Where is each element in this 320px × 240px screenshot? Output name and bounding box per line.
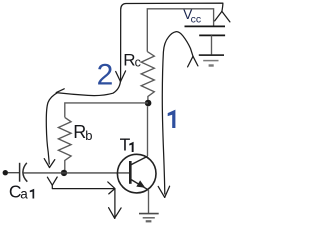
- svg-text:c: c: [135, 56, 141, 70]
- capacitor Ca1 right (curved) plate: [23, 163, 27, 182]
- capacitor C-bypass bottom plate: [199, 34, 225, 36]
- wire: top of Rb to collector node: [65, 103, 148, 118]
- wire: input terminal to coupling cap: [8, 172, 19, 174]
- wire: bypass cap to ground: [211, 35, 213, 55]
- svg-text:T: T: [120, 134, 131, 154]
- wire: coupling cap to base of T1: [23, 172, 129, 174]
- label Vcc: [183, 7, 201, 25]
- wire: Vcc top rail from collector branch to Vcc bypass cap: [147, 9, 213, 52]
- transistor T1 emitter arrow: [136, 180, 145, 187]
- ground (Vcc bypass): [199, 55, 224, 65]
- ground (emitter): [139, 214, 159, 222]
- loop arrow 1 (hand-drawn path with arrowheads): [158, 32, 198, 198]
- transistor T1 circle: [117, 154, 156, 193]
- svg-text:cc: cc: [191, 14, 202, 26]
- wire: emitter to ground: [148, 190, 150, 214]
- label Ca1: [9, 182, 34, 202]
- resistor Rb: [58, 117, 71, 170]
- base current arrow (hand-drawn: down from base node, right, down to ground): [47, 177, 121, 218]
- wire: collector rail (node to T1 collector): [147, 106, 149, 156]
- input terminal dot: [3, 170, 8, 175]
- svg-text:a: a: [20, 187, 28, 202]
- svg-text:b: b: [85, 128, 92, 143]
- transistor T1 collector lead: [131, 156, 148, 165]
- label Rb: [73, 122, 92, 143]
- svg-text:2: 2: [97, 59, 114, 92]
- loop arrow 2 (hand-drawn path with arrowheads): [44, 3, 230, 167]
- transistor T1 emitter lead: [131, 180, 148, 190]
- label Rc: [123, 50, 141, 69]
- label T1: [120, 134, 134, 154]
- node: base junction dot: [61, 170, 67, 176]
- transistor T1 base bar: [129, 161, 132, 184]
- capacitor Ca1 left (straight) plate: [19, 163, 21, 182]
- node: collector junction dot: [145, 100, 152, 107]
- capacitor C-bypass top plate (under Vcc label): [185, 25, 226, 27]
- resistor Rc: [141, 52, 154, 100]
- label 1: [168, 110, 176, 128]
